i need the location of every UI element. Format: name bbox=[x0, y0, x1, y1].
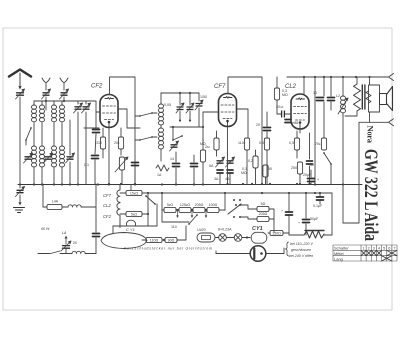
wave trap coil zigzag bbox=[156, 165, 169, 171]
trimmer capacitor C2 bbox=[42, 89, 51, 99]
aux antenna Y2 bbox=[60, 78, 68, 90]
capacitor C18 bbox=[191, 164, 198, 167]
wire CF7 cathode down bbox=[227, 127, 229, 156]
resistor R1 310 ohm bbox=[96, 137, 106, 149]
svg-text:Schalter: Schalter bbox=[334, 246, 349, 251]
wire vertical x78 with trimmer bbox=[77, 101, 79, 104]
capacitor C12 bbox=[132, 163, 139, 166]
wire antenna bus y101 bbox=[40, 100, 96, 102]
wire CF7 anode route right bbox=[237, 109, 248, 138]
svg-text:CF2: CF2 bbox=[91, 84, 103, 90]
tube CF2 bbox=[100, 95, 118, 128]
wire CL2 cathode bbox=[299, 129, 301, 133]
svg-text:6×0,23A: 6×0,23A bbox=[218, 228, 232, 232]
capacitor C32 dark bbox=[307, 161, 313, 164]
svg-text:0,5: 0,5 bbox=[259, 141, 264, 145]
trimmer capacitor C20 bbox=[216, 157, 225, 167]
wire R1 R2 leads bbox=[102, 128, 104, 137]
svg-text:0,1μF: 0,1μF bbox=[313, 204, 323, 208]
svg-text:CF7: CF7 bbox=[103, 193, 112, 198]
wire Y1 lead bbox=[45, 97, 47, 101]
capacitor C30 electrolytic bbox=[303, 220, 310, 223]
svg-text:1Δ: 1Δ bbox=[157, 173, 162, 177]
output transformer TR1 primary bbox=[354, 84, 361, 111]
svg-text:20nF: 20nF bbox=[276, 105, 284, 109]
svg-text:0,05: 0,05 bbox=[164, 103, 171, 107]
resistor R16 110 ohm bbox=[146, 237, 162, 242]
svg-text:3: 3 bbox=[373, 247, 375, 251]
lamp arrow LA bbox=[65, 236, 68, 245]
svg-text:20: 20 bbox=[73, 241, 77, 245]
resistor R8 50 bbox=[263, 165, 272, 177]
svg-text:5kΩ: 5kΩ bbox=[167, 203, 174, 207]
svg-text:5A: 5A bbox=[209, 164, 214, 168]
filter box L4A bbox=[47, 200, 62, 210]
wire row connections bbox=[176, 209, 179, 211]
capacitor C20b bbox=[217, 170, 223, 173]
trimmer capacitor C14 bbox=[186, 103, 194, 113]
switch S6 bbox=[323, 152, 332, 165]
output transformer TR1 core bbox=[362, 85, 365, 109]
speaker LS1 voice coil zigzag bbox=[366, 91, 371, 103]
tap arrows bbox=[176, 210, 179, 218]
wire left end of row bbox=[162, 209, 164, 211]
ballast lamp U420 bbox=[197, 233, 215, 242]
svg-text:0,1: 0,1 bbox=[84, 163, 89, 167]
trimmer capacitor C28 bbox=[61, 241, 71, 251]
wire top y93 header bbox=[161, 92, 199, 94]
svg-text:5kΩ: 5kΩ bbox=[131, 212, 138, 216]
svg-text:2M: 2M bbox=[205, 145, 210, 149]
svg-text:10: 10 bbox=[313, 91, 317, 95]
capacitor C31 0.1uF stub bbox=[319, 193, 321, 196]
capacitor C19 20nF coupling bbox=[264, 128, 271, 131]
wire x225 drop bbox=[224, 193, 226, 210]
trimmer capacitor C15 bbox=[195, 100, 203, 110]
wire y127 link bbox=[170, 126, 199, 128]
oscillator coil L3a bbox=[32, 146, 37, 167]
switch S8 heater bbox=[145, 195, 156, 205]
resistor R18 5k bbox=[164, 203, 176, 213]
svg-text:1/50: 1/50 bbox=[200, 95, 207, 99]
wire S1 to coils bbox=[25, 140, 27, 145]
antenna A1 bbox=[9, 70, 31, 90]
speaker LS1 secondary loop bbox=[369, 85, 380, 112]
svg-text:150Ω: 150Ω bbox=[272, 231, 281, 235]
svg-text:100Ω: 100Ω bbox=[209, 203, 218, 207]
wire vertical x96 to bus bbox=[95, 101, 97, 128]
svg-text:110k: 110k bbox=[238, 141, 246, 145]
trimmer capacitor C8 bbox=[82, 103, 91, 113]
capacitor C27 bbox=[93, 234, 100, 237]
resistor R4 2M bbox=[200, 145, 210, 162]
svg-text:U420: U420 bbox=[197, 228, 206, 232]
svg-text:110: 110 bbox=[171, 225, 177, 229]
trimmer capacitor C6 bbox=[66, 153, 75, 163]
capacitor C10 0.1uF bbox=[92, 156, 99, 159]
oscillator coil L3b bbox=[40, 146, 45, 167]
wire 15k box to bus bbox=[130, 185, 132, 191]
wire CF7 cathode bus bbox=[227, 155, 229, 184]
wire x199 to CF7 grid bbox=[199, 126, 203, 128]
svg-text:≡88: ≡88 bbox=[292, 121, 298, 125]
svg-text:7: 7 bbox=[393, 247, 395, 251]
svg-text:CF2: CF2 bbox=[103, 214, 112, 219]
svg-text:125kΩ: 125kΩ bbox=[180, 203, 191, 207]
svg-text:20: 20 bbox=[256, 123, 260, 127]
wire coil mids bbox=[33, 122, 35, 146]
svg-text:MΩ: MΩ bbox=[282, 93, 288, 97]
IF coil L5 lower bbox=[159, 128, 164, 149]
svg-text:CF7: CF7 bbox=[214, 84, 226, 90]
speaker LS1 cone bbox=[387, 87, 393, 111]
tube CL2 bbox=[291, 94, 309, 129]
svg-text:50: 50 bbox=[268, 167, 272, 171]
wires lamp row bbox=[215, 237, 219, 239]
svg-text:50μF: 50μF bbox=[310, 217, 319, 221]
svg-text:5: 5 bbox=[383, 247, 385, 251]
svg-text:+: + bbox=[317, 178, 319, 182]
svg-text:GW 322 L Aida: GW 322 L Aida bbox=[360, 149, 380, 241]
svg-text:C Y1: C Y1 bbox=[126, 227, 135, 232]
capacitor C24 10nF bbox=[317, 98, 324, 101]
svg-text:14: 14 bbox=[170, 157, 174, 161]
wire CF2 grid left bbox=[96, 111, 100, 113]
switch S10 arm bbox=[228, 204, 241, 214]
oscillator coil L4b bbox=[60, 146, 65, 167]
wire plug right bbox=[266, 248, 284, 254]
wire CL2 top anode bbox=[303, 77, 305, 95]
resistor R24 150 ohm bbox=[270, 230, 283, 235]
switch S3 bbox=[139, 136, 153, 141]
svg-text:250: 250 bbox=[291, 166, 297, 170]
svg-text:310: 310 bbox=[96, 141, 102, 145]
svg-text:Lang: Lang bbox=[334, 256, 343, 261]
wires coils to ground bus bbox=[33, 167, 35, 184]
wire L1 tops bbox=[33, 101, 35, 105]
wire secondary to terminals bbox=[369, 77, 371, 85]
svg-text:MΩ: MΩ bbox=[241, 171, 247, 175]
svg-text:205Ω: 205Ω bbox=[195, 203, 204, 207]
wire heater bottom y226 bbox=[113, 225, 157, 227]
heater filament chain bbox=[117, 185, 120, 228]
wire main ground bus y184 bbox=[18, 184, 362, 186]
wires trimmers verticals bbox=[179, 93, 181, 105]
antenna coil L2b bbox=[60, 105, 65, 122]
contact points voltage switch bbox=[233, 199, 235, 201]
tube CF7 bbox=[219, 94, 237, 127]
trimmer capacitor C1 antenna series bbox=[16, 89, 25, 99]
wire shortplug lead bbox=[216, 251, 250, 254]
resistor R10 0.5M bbox=[289, 138, 300, 150]
svg-text:5Ω: 5Ω bbox=[261, 202, 266, 206]
svg-text:0,5: 0,5 bbox=[289, 141, 294, 145]
svg-text:110Ω: 110Ω bbox=[150, 238, 159, 242]
IF coil L5 upper bbox=[159, 104, 164, 125]
resistor R2 20k bbox=[114, 137, 124, 149]
wire x315 B+ down bbox=[314, 77, 316, 184]
svg-text:6: 6 bbox=[388, 247, 390, 251]
svg-text:0,2: 0,2 bbox=[248, 159, 253, 163]
trimmer capacitor C3 bbox=[60, 89, 69, 99]
ground symbol earth bbox=[19, 184, 21, 188]
band switch S1 bbox=[25, 127, 32, 141]
wire field coil right x359 bbox=[343, 122, 359, 223]
wire y207 segment bbox=[62, 206, 68, 208]
svg-text:bei 240 V offen: bei 240 V offen bbox=[289, 254, 313, 258]
dial lamp LP2 bbox=[234, 234, 242, 242]
wire top bus y77 bbox=[287, 76, 375, 78]
wire Y2 lead bbox=[63, 97, 65, 101]
capacitor C22 20nF grid coupling bbox=[282, 111, 285, 117]
resistor R17 90 ohm bbox=[165, 237, 177, 242]
svg-text:15kΩ: 15kΩ bbox=[130, 191, 139, 195]
svg-text:4: 4 bbox=[378, 247, 380, 251]
speaker LS1 magnet bbox=[380, 94, 387, 105]
resistor R15 5k bbox=[126, 211, 142, 216]
mains dropper zigzag R25 bbox=[304, 231, 324, 238]
tube CY1 heater arc bbox=[127, 220, 136, 226]
trimmer capacitor C16 bbox=[170, 141, 179, 151]
resistor R19 125k bbox=[179, 203, 191, 213]
resistor R23 205 ohm bbox=[257, 212, 269, 222]
resistor R21 100 bbox=[207, 203, 219, 213]
svg-text:CY1: CY1 bbox=[252, 226, 263, 232]
label bei 110-220V brace bbox=[286, 242, 289, 256]
trimmer capacitor C21 bbox=[226, 157, 235, 167]
capacitor C21b bbox=[227, 170, 233, 173]
wire CF7 anode top to x262 bbox=[228, 77, 262, 184]
svg-text:2: 2 bbox=[368, 247, 370, 251]
speaker terminal bottom fork bbox=[359, 119, 394, 126]
svg-text:3Δ: 3Δ bbox=[214, 177, 219, 181]
wire vertical x70 bbox=[69, 120, 71, 155]
svg-text:Nora: Nora bbox=[366, 126, 376, 144]
wire switch verticals bbox=[147, 193, 149, 226]
svg-text:+: + bbox=[298, 221, 300, 225]
coil L8 bbox=[72, 251, 85, 253]
resistor R9 0.3M grid leak bbox=[274, 88, 287, 100]
wire antenna lead down bbox=[19, 97, 21, 184]
trimmer capacitor C7 bbox=[74, 103, 83, 113]
wire x43 drop bbox=[42, 184, 44, 207]
resistor R6 0.5M bbox=[259, 138, 270, 150]
aux antenna Y1 bbox=[42, 78, 50, 90]
mains plug P1 bbox=[250, 246, 266, 262]
svg-text:Kurzschlußstecker nur bei Glei: Kurzschlußstecker nur bei Gleichstrom bbox=[124, 247, 212, 251]
capacitor C25 10nF bbox=[328, 98, 335, 101]
svg-text:60 W: 60 W bbox=[41, 227, 50, 231]
ballast tube envelope oval bbox=[101, 233, 147, 249]
switch S9 voltage selector bbox=[188, 214, 198, 225]
svg-text:70k: 70k bbox=[315, 142, 321, 146]
wire CF2 anode route right bbox=[118, 109, 140, 128]
svg-text:bei 110–220 V: bei 110–220 V bbox=[290, 242, 314, 246]
tone coil L6 with arrow bbox=[341, 96, 346, 113]
potentiometer R3 with arrow bbox=[119, 157, 124, 170]
antenna coil L1a bbox=[32, 105, 37, 122]
capacitor C9 bbox=[93, 130, 100, 133]
wire CF2 cathode to bus bbox=[108, 127, 110, 185]
svg-text:205Ω: 205Ω bbox=[259, 212, 268, 216]
trimmer capacitor C4 bbox=[24, 153, 33, 163]
resistor R14 15k bbox=[126, 190, 142, 195]
filter coil L7 bbox=[68, 205, 81, 207]
trimmer capacitor C5 bbox=[44, 153, 53, 163]
resistor R11 250 bbox=[291, 162, 303, 174]
capacitor C23 bbox=[285, 120, 291, 123]
svg-text:20k: 20k bbox=[114, 141, 120, 145]
capacitor C17 14pF bbox=[173, 164, 180, 167]
wire CF2 anode top to x135 bbox=[110, 77, 136, 184]
wires switch to resistors bbox=[240, 205, 257, 209]
speaker terminal top fork bbox=[375, 74, 394, 81]
wire y128 left of CF2 bbox=[84, 127, 99, 129]
svg-text:CL2: CL2 bbox=[103, 203, 111, 208]
resistor R20 205 bbox=[193, 203, 205, 213]
svg-text:L2: L2 bbox=[336, 94, 340, 98]
svg-text:L4A: L4A bbox=[52, 200, 59, 204]
switch S4 bbox=[172, 135, 183, 141]
svg-text:geschlossen: geschlossen bbox=[291, 248, 311, 252]
capacitor C26 20uF electrolytic bbox=[308, 179, 315, 182]
svg-text:4Δ: 4Δ bbox=[225, 177, 230, 181]
wire x289 vertical bbox=[288, 193, 290, 211]
oscillator coil L4a bbox=[52, 146, 57, 167]
switch S7 mains antenna bbox=[38, 251, 66, 254]
wire x96 long drop bbox=[95, 184, 97, 232]
switch position table bbox=[333, 245, 397, 261]
dropper slider bar bbox=[305, 230, 324, 232]
switch S2 wave band bbox=[139, 112, 153, 117]
resistor R5 110k bbox=[238, 138, 250, 150]
resistor R13 70k bbox=[315, 138, 327, 150]
svg-text:LA: LA bbox=[62, 231, 67, 235]
trimmer capacitor C11 earth bbox=[16, 187, 25, 197]
resistor R7 0.2M bbox=[248, 156, 258, 168]
wire x332 vertical bbox=[331, 193, 333, 235]
resistor R22 5 ohm bbox=[257, 202, 269, 212]
svg-text:MΩ: MΩ bbox=[200, 142, 206, 146]
svg-text:+: + bbox=[281, 209, 283, 213]
svg-text:30: 30 bbox=[310, 163, 314, 167]
trimmer capacitor C13 bbox=[176, 103, 184, 113]
antenna coil L1b bbox=[40, 105, 45, 122]
dial lamp LP1 bbox=[219, 234, 227, 242]
svg-text:90Ω: 90Ω bbox=[168, 238, 175, 242]
capacitor C29 50uF electrolytic bbox=[286, 212, 293, 215]
tube CY1 envelope bbox=[251, 232, 267, 243]
resistor R5b 1M bbox=[214, 138, 219, 150]
antenna coil L2a bbox=[52, 105, 57, 122]
svg-text:Mittel: Mittel bbox=[334, 251, 344, 256]
svg-text:1: 1 bbox=[363, 247, 365, 251]
wire secondary bus y193 bbox=[148, 192, 332, 194]
